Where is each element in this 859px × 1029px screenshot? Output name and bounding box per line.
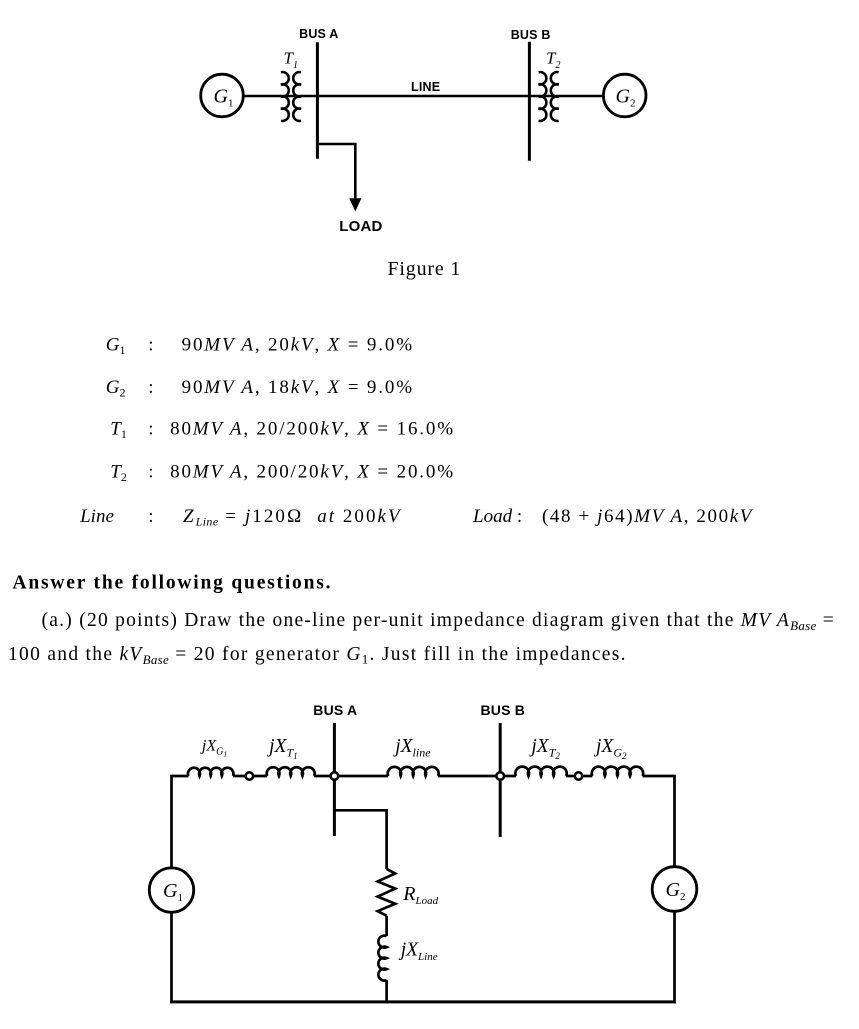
node junction on bus A xyxy=(331,772,339,780)
wire coil jX_G1 to node xyxy=(233,775,267,778)
bottom rail wire xyxy=(170,1000,676,1003)
bus A (top diagram) xyxy=(316,42,319,159)
wire LINE bus A to bus B xyxy=(317,95,529,98)
svg-text:90MV A, 20kV, X = 9.0%: 90MV A, 20kV, X = 9.0% xyxy=(182,334,414,355)
wire transformer T2 to G2 xyxy=(529,95,604,98)
inductor jX_line xyxy=(388,767,439,776)
wire jX_T1 to jX_line across bus A xyxy=(314,775,388,778)
node between jX_T2 and jX_G2 xyxy=(575,772,582,779)
svg-text:BUS B: BUS B xyxy=(481,702,526,718)
resistor R_Load zigzag xyxy=(378,869,396,916)
inductor jX_T1 xyxy=(267,767,315,776)
svg-text:Figure 1: Figure 1 xyxy=(388,258,462,280)
node junction on bus B xyxy=(496,772,504,780)
generator G1 circle xyxy=(201,74,244,117)
svg-text::: : xyxy=(148,334,153,355)
svg-text::: : xyxy=(148,462,153,483)
svg-text:LINE: LINE xyxy=(411,80,440,94)
wire G1 to transformer T1 and bus A xyxy=(243,95,317,98)
wire resistor to inductor xyxy=(385,916,388,936)
svg-text:100 and the kVBase = 20 for ge: 100 and the kVBase = 20 for generator G1… xyxy=(8,644,627,667)
inductor jX_G1 xyxy=(188,768,233,776)
bus B (bottom diagram) xyxy=(499,723,502,837)
svg-text::: : xyxy=(148,377,153,398)
generator G1 circle (bottom) xyxy=(149,868,193,912)
top rail wire left segment xyxy=(172,775,189,778)
svg-text:BUS A: BUS A xyxy=(313,702,357,718)
inductor jX_Line (vertical) xyxy=(378,936,386,981)
transformer T1 xyxy=(281,72,301,121)
load arrow head xyxy=(349,198,361,211)
svg-text:BUS B: BUS B xyxy=(511,28,551,42)
node between jX_G1 and jX_T1 xyxy=(246,772,253,779)
svg-text::: : xyxy=(148,419,153,440)
load branch stub from bus A xyxy=(334,810,386,869)
svg-text:(48 + j64)MV A, 200kV: (48 + j64)MV A, 200kV xyxy=(542,506,754,527)
svg-text:Answer the following questions: Answer the following questions. xyxy=(13,573,333,594)
svg-text:80MV A, 20/200kV, X = 16.0%: 80MV A, 20/200kV, X = 16.0% xyxy=(170,419,455,440)
bus B (top diagram) xyxy=(528,42,531,161)
generator G2 circle (bottom) xyxy=(652,867,697,912)
wire jX_T2 to jX_G2 xyxy=(566,775,592,778)
bus A (bottom diagram) xyxy=(333,723,336,836)
wire G1 to bottom rail xyxy=(170,912,173,1003)
inductor jX_G2 xyxy=(592,767,643,776)
svg-text:Load :: Load : xyxy=(472,506,522,527)
top rail wire right segment xyxy=(643,775,675,778)
inductor jX_T2 xyxy=(515,767,566,776)
svg-text::: : xyxy=(148,506,153,527)
load feeder wire from bus A xyxy=(317,144,355,200)
right branch wire to G2 xyxy=(673,775,676,867)
transformer T2 xyxy=(539,72,559,121)
generator G2 circle xyxy=(603,74,646,117)
wire G2 to bottom rail xyxy=(673,911,676,1003)
svg-text:BUS A: BUS A xyxy=(299,27,338,41)
svg-text:LOAD: LOAD xyxy=(339,218,382,235)
left branch wire to G1 xyxy=(170,775,173,868)
wire jX_line to jX_T2 across bus B xyxy=(438,775,516,778)
svg-text:(a.) (20 points) Draw the one-: (a.) (20 points) Draw the one-line per-u… xyxy=(42,610,835,633)
wire inductor to bottom rail xyxy=(385,980,388,1003)
svg-text:80MV A, 200/20kV, X = 20.0%: 80MV A, 200/20kV, X = 20.0% xyxy=(170,462,455,483)
svg-text:90MV A, 18kV, X = 9.0%: 90MV A, 18kV, X = 9.0% xyxy=(182,377,414,398)
svg-text:Line: Line xyxy=(79,506,114,527)
